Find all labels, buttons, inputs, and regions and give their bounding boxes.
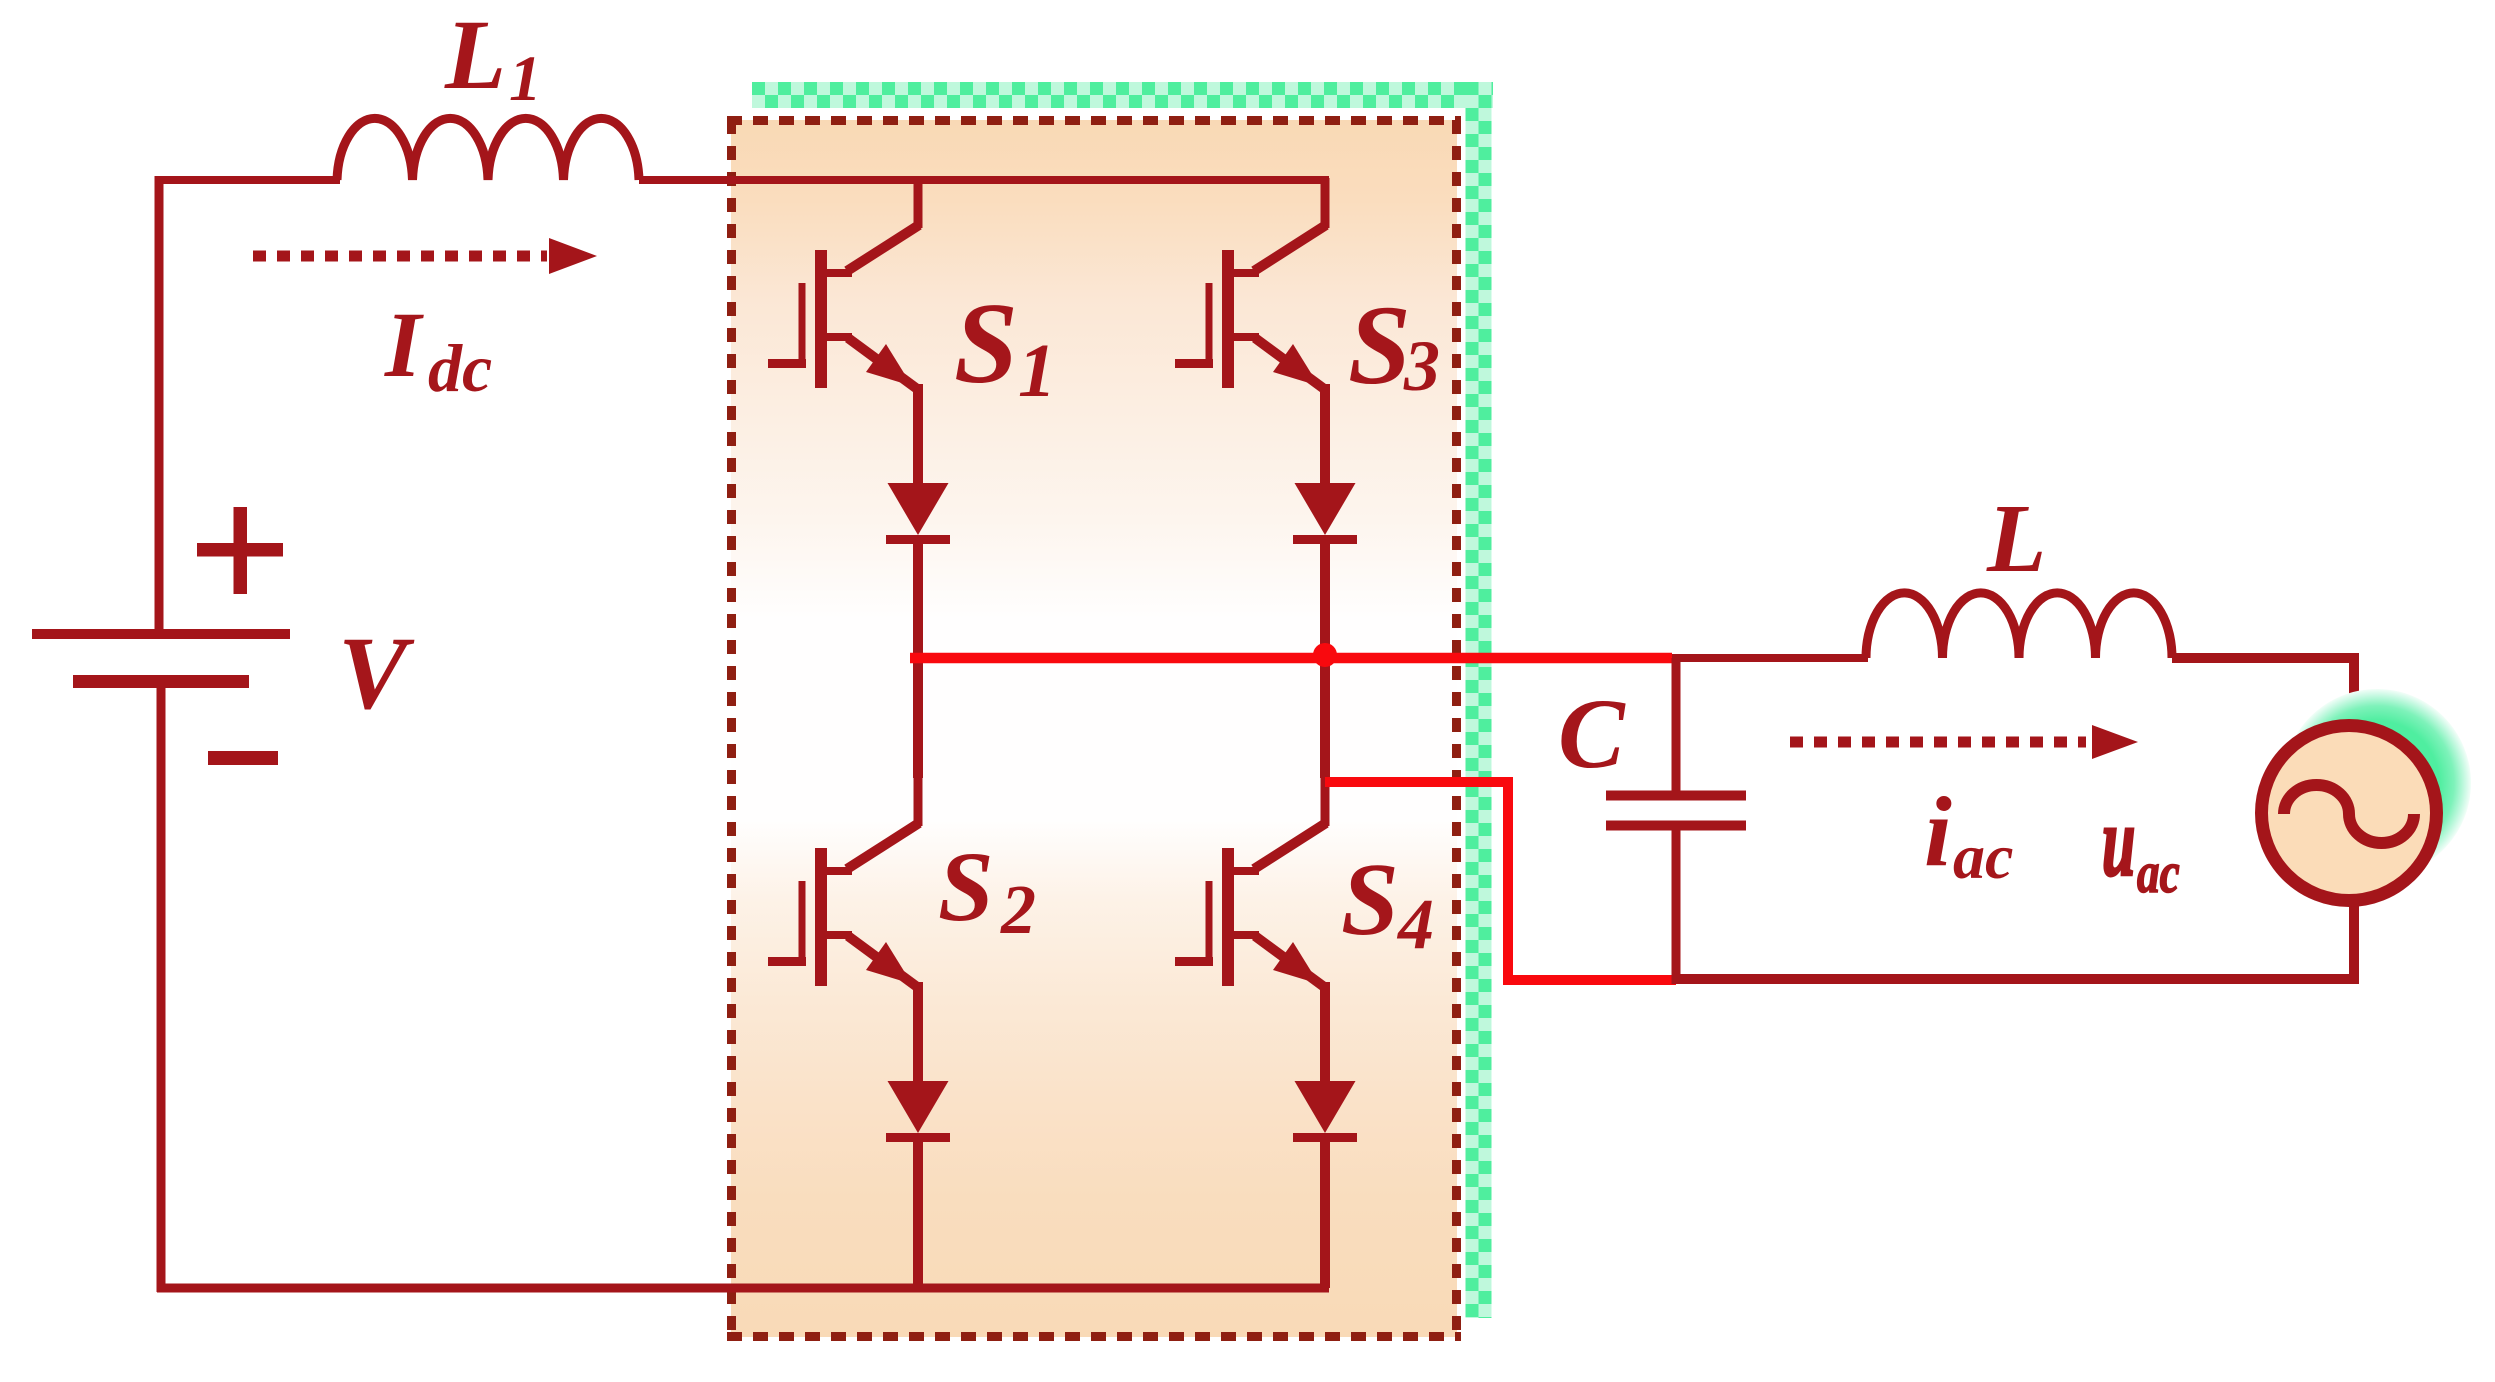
wire: right leg node A down to S4 collector bbox=[1320, 656, 1330, 778]
svg-text:V: V bbox=[338, 616, 415, 731]
green shadow top band of converter box bbox=[752, 89, 1493, 102]
current arrow iac (dashed) bbox=[1790, 737, 2086, 748]
wire: S4 leg from diode to bottom wire bbox=[1320, 1138, 1330, 1288]
svg-text:1: 1 bbox=[1018, 329, 1056, 413]
transistor S2 bbox=[768, 776, 920, 1094]
ac source sine wave bbox=[2284, 785, 2414, 843]
junction dot at node A bbox=[1313, 643, 1337, 667]
svg-text:dc: dc bbox=[428, 330, 492, 406]
svg-text:S: S bbox=[1348, 283, 1411, 408]
wire: bottom right to AC source bottom bbox=[1672, 903, 2354, 979]
transistor S4 bbox=[1175, 776, 1327, 1094]
wire: bottom horizontal bbox=[157, 1284, 1329, 1293]
current arrow Idc (dashed) bbox=[253, 251, 547, 262]
svg-text:4: 4 bbox=[1396, 884, 1434, 964]
converter bridge box (dashed border, peach gradient fill) bbox=[727, 120, 1461, 1337]
wire: top horizontal left of inductor L1 bbox=[155, 176, 340, 184]
wire: node A to inductor L bbox=[1672, 654, 1868, 662]
svg-text:I: I bbox=[384, 294, 424, 397]
svg-text:L: L bbox=[444, 0, 506, 110]
capacitor C bottom lead bbox=[1672, 830, 1681, 984]
svg-text:i: i bbox=[1924, 776, 1952, 887]
wire: top horizontal from L1 into box to S3 bbox=[639, 176, 1329, 184]
wire: S2 leg from diode to bottom wire bbox=[913, 1138, 923, 1288]
diode under S2 bbox=[886, 1081, 950, 1142]
svg-text:S: S bbox=[1341, 842, 1399, 957]
battery plus sign bbox=[197, 543, 283, 557]
capacitor C plates bbox=[1606, 791, 1746, 801]
inductor L1 bbox=[337, 118, 639, 180]
diode under S4 bbox=[1293, 1081, 1357, 1142]
transistor S3 bbox=[1175, 178, 1327, 496]
diode under S3 bbox=[1293, 483, 1357, 544]
lower output wire (bright red) bbox=[1325, 782, 1676, 980]
svg-text:L: L bbox=[1986, 485, 2046, 592]
svg-text:ac: ac bbox=[2137, 842, 2180, 906]
node A output wire (bright red) bbox=[910, 653, 1672, 664]
svg-text:S: S bbox=[938, 831, 994, 942]
wire: S1 leg from diode to node A bbox=[913, 540, 923, 662]
svg-text:2: 2 bbox=[1000, 872, 1036, 949]
svg-text:C: C bbox=[1558, 678, 1626, 789]
inductor L bbox=[1866, 593, 2172, 658]
battery V plates bbox=[32, 629, 290, 639]
battery minus sign bbox=[208, 751, 278, 765]
diode under S1 bbox=[886, 483, 950, 544]
green shadow of AC source bbox=[2283, 689, 2471, 877]
wire: left vertical from top wire to battery + terminal bbox=[155, 176, 164, 631]
transistor S1 bbox=[768, 178, 920, 496]
svg-text:ac: ac bbox=[1953, 821, 2013, 892]
green shadow right band of converter box bbox=[1472, 82, 1485, 1318]
svg-text:1: 1 bbox=[509, 43, 542, 115]
wire: inductor L to AC source top bbox=[2172, 658, 2354, 722]
capacitor C top lead bbox=[1672, 658, 1681, 791]
svg-text:3: 3 bbox=[1403, 326, 1440, 406]
wire: left vertical from battery - terminal to bottom wire bbox=[157, 684, 166, 1292]
wire: S3 leg from diode to node A bbox=[1320, 540, 1330, 662]
wire: left leg node A to S2 collector bbox=[913, 656, 923, 778]
ac source uac circle bbox=[2262, 726, 2437, 901]
svg-text:u: u bbox=[2102, 786, 2135, 896]
svg-text:S: S bbox=[954, 280, 1018, 407]
